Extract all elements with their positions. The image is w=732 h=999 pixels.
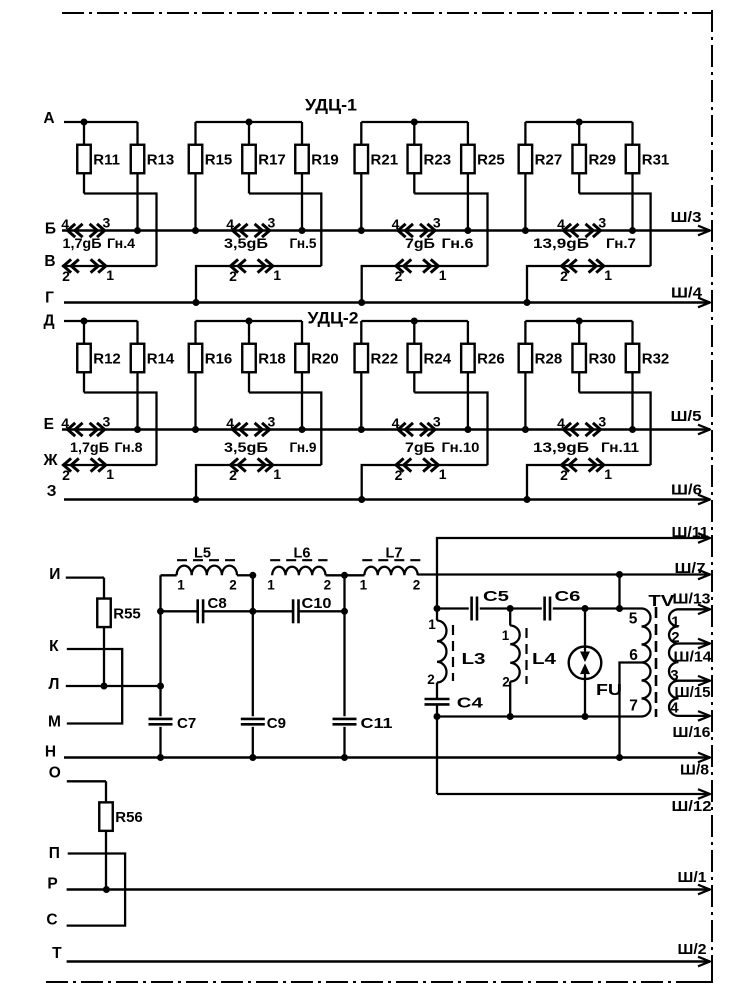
svg-text:R21: R21 <box>371 152 399 169</box>
svg-text:УДЦ-2: УДЦ-2 <box>308 310 359 328</box>
svg-text:R20: R20 <box>311 351 339 368</box>
svg-text:Гн.7: Гн.7 <box>606 235 636 251</box>
svg-text:R25: R25 <box>477 152 505 169</box>
svg-text:13,9gБ: 13,9gБ <box>533 235 589 251</box>
resistor R17 <box>248 122 250 145</box>
inductor L5 <box>161 574 177 576</box>
resistor R22 <box>360 321 362 344</box>
svg-text:Гн.5: Гн.5 <box>290 235 317 251</box>
wire bus lower <box>436 717 438 795</box>
svg-text:Ш/1: Ш/1 <box>678 869 707 886</box>
junction dot R14 on row Е <box>134 426 141 433</box>
connector pins 2-1 Ж cell1 <box>64 458 72 471</box>
svg-text:5: 5 <box>629 611 638 628</box>
connector pins 4-3 Е cell1 <box>68 423 76 436</box>
svg-text:В: В <box>44 253 55 270</box>
junction dot R13 on row Б <box>134 227 141 234</box>
wire jog R23 bottom to row В <box>414 194 487 267</box>
svg-text:Ш/2: Ш/2 <box>678 941 707 958</box>
svg-text:R14: R14 <box>147 351 175 368</box>
svg-text:R30: R30 <box>588 351 616 368</box>
svg-text:4: 4 <box>670 700 679 717</box>
resistor R29 <box>578 122 580 145</box>
resistor R20 <box>301 321 303 344</box>
junction dots column3 <box>341 572 348 579</box>
wire row И <box>66 576 104 578</box>
svg-text:1: 1 <box>177 578 185 593</box>
capacitor C8 <box>161 610 198 612</box>
resistor R13 <box>136 122 138 145</box>
svg-text:Ш/12: Ш/12 <box>672 798 712 815</box>
node column 1 wire <box>159 575 161 757</box>
wire top rail cell4 <box>525 320 632 322</box>
svg-text:R19: R19 <box>311 152 339 169</box>
svg-text:З: З <box>47 483 57 500</box>
connector pins 2-1 В cell1 <box>64 259 72 272</box>
svg-text:1: 1 <box>106 267 114 283</box>
svg-text:L3: L3 <box>462 651 486 668</box>
wire row О <box>67 780 106 782</box>
svg-text:Ш/4: Ш/4 <box>671 285 703 302</box>
svg-text:1: 1 <box>267 578 275 593</box>
svg-text:7gБ: 7gБ <box>405 439 435 455</box>
wire row Ж cell4 to row З <box>527 465 651 500</box>
svg-text:С: С <box>46 912 57 929</box>
wire row З bus to Ш/6 <box>64 498 710 501</box>
svg-text:Гн.8: Гн.8 <box>115 439 143 455</box>
resistor R11 <box>83 122 85 145</box>
wire Ш/12 bus <box>437 793 710 795</box>
resistor R31 <box>631 122 633 145</box>
connector pins 2-1 Ж cell2 <box>231 458 239 471</box>
svg-text:3: 3 <box>268 214 276 230</box>
frame corner bottom-right <box>698 968 712 982</box>
resistor R55 <box>103 578 105 599</box>
svg-text:1,7gБ: 1,7gБ <box>70 439 109 455</box>
svg-text:L6: L6 <box>294 546 311 562</box>
resistor R23 <box>413 122 415 145</box>
wire top rail cell2 <box>196 121 303 123</box>
wire jog R12 bottom to row Ж <box>84 393 157 466</box>
svg-text:C9: C9 <box>267 715 286 732</box>
svg-text:R56: R56 <box>115 809 143 826</box>
svg-text:R31: R31 <box>642 152 670 169</box>
svg-text:C7: C7 <box>177 715 196 732</box>
wire row Н bus to Ш/8 <box>64 756 710 759</box>
svg-text:И: И <box>49 566 60 583</box>
svg-text:Ш/6: Ш/6 <box>671 482 702 499</box>
connector pins 2-1 Ж cell3 <box>396 458 404 471</box>
svg-text:R22: R22 <box>371 351 399 368</box>
svg-text:Ш/13: Ш/13 <box>673 590 711 607</box>
capacitor C11 <box>333 718 357 721</box>
svg-text:L7: L7 <box>386 546 403 562</box>
resistor R32 <box>631 321 633 344</box>
svg-text:3: 3 <box>670 667 678 684</box>
wire row Ж cell2 to row З <box>196 465 321 500</box>
svg-text:1: 1 <box>439 466 447 482</box>
svg-text:R17: R17 <box>258 152 286 169</box>
svg-text:R12: R12 <box>93 351 121 368</box>
resistor R16 <box>194 321 196 344</box>
svg-text:Ж: Ж <box>42 452 58 469</box>
svg-text:2: 2 <box>229 467 237 483</box>
capacitor C10 <box>253 610 293 612</box>
svg-text:2: 2 <box>229 578 237 593</box>
svg-text:3,5gБ: 3,5gБ <box>224 439 268 455</box>
inductor L3 <box>437 621 447 683</box>
wire row П <box>67 854 126 926</box>
frame bottom <box>46 981 712 983</box>
svg-text:2: 2 <box>62 467 70 483</box>
wire TV secondary tap Ш/14 <box>679 642 711 644</box>
resistor R30 <box>578 321 580 344</box>
wire row Р bus to Ш/1 <box>67 888 710 891</box>
svg-text:Гн.9: Гн.9 <box>290 439 317 455</box>
wire jog R18 bottom to row Ж <box>249 393 321 466</box>
svg-text:L5: L5 <box>194 546 211 562</box>
resistor R25 <box>467 122 469 145</box>
svg-text:7gБ: 7gБ <box>405 235 435 251</box>
svg-text:R24: R24 <box>424 351 452 368</box>
resistor R15 <box>194 122 196 145</box>
svg-text:2: 2 <box>427 672 435 687</box>
svg-text:C10: C10 <box>302 595 332 612</box>
junction dots tank bottom <box>434 713 441 720</box>
arrester FU <box>584 609 586 651</box>
wire top rail cell4 <box>525 121 632 123</box>
wire TV secondary tap Ш/13 <box>679 608 711 610</box>
svg-text:R27: R27 <box>535 152 563 169</box>
connector pins 4-3 Е cell3 <box>398 423 406 436</box>
svg-text:Д: Д <box>43 313 54 330</box>
svg-text:Гн.6: Гн.6 <box>442 235 474 251</box>
capacitor C4 <box>436 683 438 717</box>
resistor R18 <box>248 321 250 344</box>
wire row Ж cell3 to row З <box>362 465 488 500</box>
wire top rail cell3 <box>361 121 468 123</box>
svg-text:R23: R23 <box>424 152 452 169</box>
svg-text:Ш/15: Ш/15 <box>675 684 711 701</box>
svg-text:А: А <box>43 110 54 127</box>
svg-text:1: 1 <box>273 267 281 283</box>
TV secondary winding pins 1-2-3-4 <box>669 609 679 643</box>
svg-text:Гн.10: Гн.10 <box>442 439 480 455</box>
wire TV pin6 tap to Ш/8 <box>620 663 642 758</box>
connector pins 2-1 В cell4 <box>562 259 570 272</box>
connector pins 4-3 Е cell4 <box>564 423 572 436</box>
svg-text:Ш/14: Ш/14 <box>674 649 713 666</box>
connector pins 2-1 В cell3 <box>396 259 404 272</box>
resistor R24 <box>413 321 415 344</box>
svg-text:1: 1 <box>604 267 612 283</box>
svg-text:2: 2 <box>560 268 568 284</box>
connector pins 2-1 Ж cell4 <box>562 458 570 471</box>
wire Ш/7 to transformer <box>618 575 620 609</box>
wire rail row А cell1 <box>64 121 138 123</box>
svg-text:3,5gБ: 3,5gБ <box>224 235 268 251</box>
svg-text:П: П <box>49 845 60 862</box>
svg-text:Е: Е <box>44 416 54 433</box>
wire row К <box>67 649 122 724</box>
junction dots on C row <box>434 605 441 612</box>
capacitor C7 <box>149 718 173 721</box>
svg-text:2: 2 <box>395 467 403 483</box>
connector pins 4-3 Б cell4 <box>564 224 572 237</box>
svg-text:R55: R55 <box>113 605 141 622</box>
wire row Е bus to Ш/5 <box>62 428 710 431</box>
svg-text:1: 1 <box>273 466 281 482</box>
svg-text:Л: Л <box>49 676 60 693</box>
resistor R56 <box>105 781 107 802</box>
wire tank bottom rail <box>437 715 642 717</box>
svg-text:Б: Б <box>45 221 56 238</box>
wire row Л <box>66 685 161 687</box>
svg-text:2: 2 <box>324 578 332 593</box>
svg-text:7: 7 <box>629 698 638 715</box>
connector pins 2-1 В cell2 <box>231 259 239 272</box>
svg-text:C6: C6 <box>555 588 581 605</box>
svg-text:Гн.11: Гн.11 <box>601 439 639 455</box>
svg-text:Т: Т <box>52 945 62 962</box>
junction dots column2 <box>249 572 256 579</box>
svg-text:О: О <box>49 765 61 782</box>
svg-text:C11: C11 <box>361 715 393 732</box>
capacitor C5 <box>470 597 473 621</box>
wire jog R29 bottom to row В <box>579 194 650 267</box>
resistor R12 <box>83 321 85 344</box>
node column 3 wire <box>343 575 345 757</box>
svg-text:C8: C8 <box>208 595 227 612</box>
connector pins 4-3 Б cell3 <box>398 224 406 237</box>
junction dot R56-Р <box>103 886 110 893</box>
svg-text:R11: R11 <box>93 152 120 169</box>
svg-text:2: 2 <box>62 268 70 284</box>
wire row Г bus to Ш/4 <box>64 301 710 304</box>
wire row Ж cell1 segment <box>62 464 157 466</box>
svg-text:2: 2 <box>560 467 568 483</box>
connector pins 4-3 Е cell2 <box>233 423 241 436</box>
connector pins 4-3 Б cell2 <box>233 224 241 237</box>
wire row В cell3 to row Г <box>362 266 488 303</box>
svg-text:Ш/5: Ш/5 <box>671 408 702 425</box>
wire Ш/11 bus <box>437 538 710 621</box>
svg-text:13,9gБ: 13,9gБ <box>533 439 589 455</box>
junction dots column1 <box>157 608 164 615</box>
frame top <box>62 12 712 14</box>
svg-text:1: 1 <box>671 613 679 630</box>
svg-text:УДЦ-1: УДЦ-1 <box>305 97 357 115</box>
svg-text:2: 2 <box>671 629 679 646</box>
svg-text:2: 2 <box>229 268 237 284</box>
svg-text:Гн.4: Гн.4 <box>107 235 135 251</box>
inductor L7 <box>345 574 365 576</box>
junction dot R55-Л <box>101 683 108 690</box>
svg-text:М: М <box>48 714 61 731</box>
resistor R27 <box>524 122 526 145</box>
svg-text:Ш/8: Ш/8 <box>680 762 709 779</box>
svg-text:Ш/16: Ш/16 <box>673 724 711 741</box>
wire top rail cell2 <box>196 320 303 322</box>
wire jog R24 bottom to row Ж <box>414 393 487 466</box>
svg-text:R26: R26 <box>477 351 505 368</box>
resistor R14 <box>136 321 138 344</box>
svg-text:R18: R18 <box>258 351 286 368</box>
svg-text:Ш/3: Ш/3 <box>671 209 702 226</box>
svg-text:1,7gБ: 1,7gБ <box>63 235 102 251</box>
svg-text:Н: Н <box>45 744 56 761</box>
svg-text:3: 3 <box>433 214 441 230</box>
wire row Ш/7 from L7 <box>418 573 710 575</box>
svg-text:3: 3 <box>598 413 606 429</box>
svg-text:3: 3 <box>598 214 606 230</box>
svg-text:3: 3 <box>103 413 111 429</box>
resistor R21 <box>360 122 362 145</box>
svg-text:R15: R15 <box>205 152 233 169</box>
svg-text:К: К <box>49 638 59 655</box>
svg-text:Ш/7: Ш/7 <box>675 560 706 577</box>
svg-text:1: 1 <box>502 628 510 643</box>
TV primary winding pins 5-6-7 <box>642 609 651 663</box>
svg-text:FU: FU <box>596 682 622 699</box>
wire rail row Д cell1 <box>64 320 138 322</box>
wire top rail cell3 <box>361 320 468 322</box>
wire row Т bus to Ш/2 <box>67 960 710 963</box>
frame corner top-right <box>700 13 712 26</box>
inductor L6 <box>272 567 325 576</box>
capacitor C6 <box>543 597 546 621</box>
svg-text:C5: C5 <box>483 588 509 605</box>
svg-text:R13: R13 <box>147 152 175 169</box>
resistor R19 <box>301 122 303 145</box>
svg-text:R28: R28 <box>535 351 563 368</box>
svg-text:L4: L4 <box>532 651 556 668</box>
svg-text:R29: R29 <box>588 152 616 169</box>
svg-text:Ш/11: Ш/11 <box>672 524 709 541</box>
wire row В cell2 to row Г <box>196 266 321 303</box>
svg-text:1: 1 <box>428 617 436 632</box>
svg-text:3: 3 <box>268 413 276 429</box>
svg-text:1: 1 <box>604 466 612 482</box>
wire jog R30 bottom to row Ж <box>579 393 650 466</box>
wire row Б bus to Ш/3 <box>62 229 710 232</box>
svg-text:2: 2 <box>395 268 403 284</box>
wire jog R17 bottom to row В <box>249 194 321 267</box>
svg-text:Г: Г <box>45 290 54 307</box>
svg-text:TV: TV <box>648 593 674 610</box>
capacitor C9 <box>241 718 265 721</box>
wire capacitor row C5 C6 <box>437 607 469 609</box>
wire row В cell1 segment <box>62 265 157 267</box>
inductor L4 <box>509 609 511 626</box>
node column 2 wire <box>252 575 254 757</box>
wire TV secondary tap Ш/16 <box>679 715 711 717</box>
svg-text:2: 2 <box>502 675 510 690</box>
wire TV secondary tap Ш/15 <box>679 680 711 682</box>
svg-text:1: 1 <box>439 267 447 283</box>
svg-text:2: 2 <box>413 578 421 593</box>
svg-text:R32: R32 <box>642 351 670 368</box>
svg-text:3: 3 <box>103 214 111 230</box>
frame right <box>711 10 713 982</box>
svg-text:Р: Р <box>47 876 57 893</box>
svg-text:R16: R16 <box>205 351 233 368</box>
svg-text:C4: C4 <box>457 695 484 712</box>
svg-text:1: 1 <box>360 578 368 593</box>
resistor R26 <box>467 321 469 344</box>
TV core <box>655 607 658 717</box>
svg-text:3: 3 <box>433 413 441 429</box>
connector pins 4-3 Б cell1 <box>68 224 76 237</box>
svg-text:1: 1 <box>106 466 114 482</box>
resistor R28 <box>524 321 526 344</box>
wire jog R11 bottom to row В <box>84 194 157 267</box>
wire row В cell4 to row Г <box>527 266 651 303</box>
